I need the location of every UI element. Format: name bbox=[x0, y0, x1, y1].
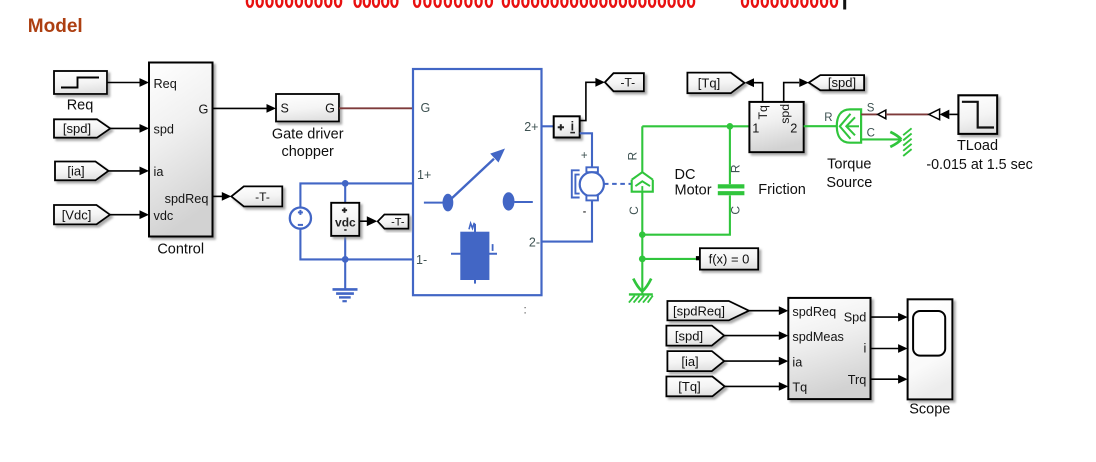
block Gate driver chopper bbox=[272, 94, 344, 160]
svg-text:C: C bbox=[867, 128, 875, 140]
svg-text:[ia]: [ia] bbox=[67, 164, 84, 179]
svg-text:DC: DC bbox=[675, 167, 696, 183]
svg-text:1-: 1- bbox=[416, 253, 427, 267]
svg-text:ia: ia bbox=[792, 355, 803, 369]
from tag [spdReq] bbox=[667, 301, 749, 320]
wire ground stem bbox=[344, 259, 346, 289]
rotational reference ground (down) bbox=[629, 279, 653, 303]
svg-text:spd: spd bbox=[154, 123, 174, 137]
goto tag [spd] bbox=[809, 75, 864, 90]
wire Control G output to Gate driver chopper bbox=[213, 104, 277, 113]
svg-text:ia: ia bbox=[154, 165, 165, 179]
svg-text:Tq: Tq bbox=[792, 381, 807, 395]
wire current sensor i output to goto tag bbox=[580, 78, 605, 121]
goto tag -T- (current) bbox=[605, 73, 644, 91]
chopper icon transistor bbox=[451, 223, 497, 284]
junction node friction branch bbox=[727, 123, 734, 130]
dashed shaft connection motor to DC Motor block bbox=[604, 183, 632, 185]
wire to solver configuration bbox=[642, 258, 696, 260]
DC Motor block icon bbox=[632, 172, 653, 192]
svg-text:TLoad: TLoad bbox=[957, 138, 998, 154]
svg-text:S: S bbox=[281, 102, 289, 116]
svg-text:R: R bbox=[824, 112, 832, 124]
DC voltage source bbox=[290, 208, 311, 229]
wire vdc tap bottom bbox=[344, 236, 346, 260]
wire current sensor to motor + bbox=[580, 133, 592, 167]
wire [Tq] to scope subsystem bbox=[725, 382, 789, 391]
svg-text:2-: 2- bbox=[529, 235, 540, 249]
wire [spdReq] to scope subsystem bbox=[749, 306, 788, 315]
svg-text:Control: Control bbox=[157, 241, 204, 257]
wire [Vdc] to Control bbox=[110, 210, 149, 219]
from tag [spd] bbox=[54, 119, 110, 137]
svg-text:-T-: -T- bbox=[391, 216, 405, 228]
label Torque Source bbox=[826, 156, 872, 191]
wire friction C return bbox=[642, 195, 730, 234]
wire vdc output bbox=[359, 216, 377, 226]
wire i to Scope bbox=[871, 344, 908, 353]
from tag [ia] bbox=[55, 162, 109, 181]
label DC Motor bbox=[675, 167, 712, 199]
wire to rotational reference bbox=[641, 259, 643, 294]
wire chopper 2+ to current sensor bbox=[542, 125, 554, 127]
svg-text:2: 2 bbox=[790, 121, 797, 135]
svg-text:[Tq]: [Tq] bbox=[678, 379, 700, 394]
from tag [Vdc] bbox=[54, 205, 110, 224]
svg-text:i: i bbox=[571, 119, 574, 133]
electrical ground bbox=[333, 289, 358, 301]
wire TLoad to Torque Source S (physical) bbox=[861, 109, 958, 120]
svg-text::: : bbox=[524, 305, 527, 317]
svg-text:C: C bbox=[627, 206, 641, 215]
goto tag [Tq] bbox=[687, 73, 744, 94]
from tag [spd] (scope) bbox=[666, 326, 724, 346]
svg-text:1+: 1+ bbox=[417, 168, 431, 182]
wire [spd] to Control bbox=[110, 124, 149, 133]
svg-text:Trq: Trq bbox=[848, 373, 867, 387]
svg-text:2+: 2+ bbox=[524, 120, 538, 134]
svg-text:Model: Model bbox=[28, 16, 83, 37]
rotational reference ground (right) bbox=[890, 128, 911, 156]
wire source bottom rail to chopper 1- bbox=[300, 229, 413, 260]
goto tag -T- (spdReq) bbox=[231, 186, 282, 206]
svg-text:f(x) = 0: f(x) = 0 bbox=[709, 252, 750, 267]
scope block bbox=[908, 299, 953, 417]
wire [spd] to scope subsystem bbox=[724, 331, 788, 340]
svg-text:1: 1 bbox=[752, 121, 759, 135]
wire sensor to Torque Source R bbox=[804, 125, 837, 127]
svg-text:Gate driver: Gate driver bbox=[272, 126, 344, 142]
svg-text:Spd: Spd bbox=[844, 311, 867, 325]
wire sensor spd output to [spd] bbox=[784, 78, 809, 102]
wire Trq to Scope bbox=[871, 375, 908, 384]
svg-text:Req: Req bbox=[154, 77, 177, 91]
junction node solver tap bbox=[639, 256, 646, 263]
red squiggle annotation (clipped text) bbox=[247, 0, 837, 7]
svg-text:R: R bbox=[626, 151, 640, 160]
svg-text:[Tq]: [Tq] bbox=[698, 75, 720, 90]
svg-text:vdc: vdc bbox=[335, 216, 356, 230]
goto tag -T- (vdc) bbox=[378, 215, 409, 229]
junction node friction return bbox=[639, 231, 646, 238]
friction block icon bbox=[718, 186, 745, 193]
svg-text:-0.015 at 1.5 sec: -0.015 at 1.5 sec bbox=[926, 157, 1033, 173]
torque source block bbox=[837, 109, 861, 142]
wire vdc tap top bbox=[344, 183, 346, 202]
wire gate signal (physical) to chopper G bbox=[339, 107, 413, 109]
junction node top bbox=[342, 180, 349, 187]
wire step Req to Control bbox=[107, 78, 149, 87]
svg-text:i: i bbox=[863, 341, 866, 355]
junction node bottom bbox=[342, 256, 349, 263]
svg-text:S: S bbox=[867, 102, 875, 114]
wire friction R bbox=[729, 126, 731, 184]
svg-text:Motor: Motor bbox=[675, 182, 712, 198]
svg-text:+: + bbox=[581, 150, 588, 162]
subsystem chopper (blue block) bbox=[413, 69, 542, 295]
svg-text:Req: Req bbox=[67, 98, 94, 114]
subsystem scope signals bbox=[788, 298, 870, 399]
svg-text:chopper: chopper bbox=[281, 144, 334, 160]
svg-text:spdReq: spdReq bbox=[165, 192, 209, 206]
subsystem block Control bbox=[149, 63, 213, 258]
svg-text:[spdReq]: [spdReq] bbox=[673, 303, 725, 318]
svg-text:Friction: Friction bbox=[758, 182, 806, 198]
wire motor - back to chopper 2- bbox=[542, 200, 593, 241]
wire sensor Tq output to [Tq] bbox=[745, 78, 763, 102]
voltage sensor vdc bbox=[331, 203, 359, 236]
svg-text:spdReq: spdReq bbox=[792, 305, 836, 319]
svg-text:[spd]: [spd] bbox=[828, 75, 856, 90]
svg-text:Scope: Scope bbox=[909, 402, 950, 418]
svg-text:G: G bbox=[421, 101, 431, 115]
wire [ia] to scope subsystem bbox=[724, 357, 788, 366]
svg-text:R: R bbox=[728, 164, 742, 173]
sensor block Tq/spd bbox=[749, 102, 803, 152]
svg-text:Source: Source bbox=[826, 175, 872, 191]
svg-text:[Vdc]: [Vdc] bbox=[62, 207, 92, 222]
svg-text:Torque: Torque bbox=[827, 156, 871, 172]
wire source top to chopper 1+ bbox=[300, 183, 413, 207]
svg-text:-T-: -T- bbox=[620, 76, 635, 90]
solver configuration block f(x)=0 bbox=[696, 248, 758, 269]
from tag [Tq] (scope) bbox=[666, 377, 724, 397]
svg-text:G: G bbox=[199, 103, 209, 117]
svg-text:Tq: Tq bbox=[756, 105, 770, 120]
chopper icon ideal switch bbox=[424, 149, 533, 212]
wire Control spdReq output to goto tag bbox=[213, 192, 232, 201]
wire Spd to Scope bbox=[871, 313, 908, 322]
wire top mechanical rail bbox=[642, 125, 749, 127]
wire DC Motor C down bbox=[641, 192, 643, 259]
svg-text:[spd]: [spd] bbox=[63, 121, 91, 136]
svg-text:G: G bbox=[325, 102, 335, 116]
wire DC Motor R up to top rail bbox=[641, 126, 643, 172]
svg-text:[ia]: [ia] bbox=[681, 354, 698, 369]
text cursor bar bbox=[843, 0, 846, 10]
svg-text:[spd]: [spd] bbox=[675, 328, 703, 343]
step source block Req bbox=[54, 71, 107, 114]
svg-text:-T-: -T- bbox=[255, 190, 270, 204]
svg-text:spdMeas: spdMeas bbox=[792, 330, 843, 344]
current sensor +i bbox=[554, 116, 580, 137]
step source block TLoad bbox=[926, 95, 1033, 173]
wire Torque Source C to reference bbox=[861, 138, 900, 140]
from tag [ia] (scope) bbox=[667, 351, 724, 371]
DC motor icon bbox=[572, 150, 604, 212]
svg-text:vdc: vdc bbox=[154, 209, 174, 223]
wire [ia] to Control bbox=[109, 167, 150, 176]
